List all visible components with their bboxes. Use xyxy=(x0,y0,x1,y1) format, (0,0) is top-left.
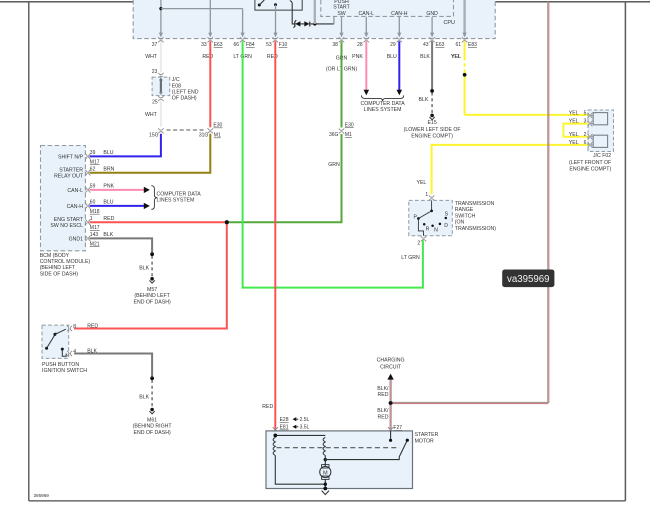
junction connector J/C F02 xyxy=(587,110,613,152)
pin 38 connector at module bottom xyxy=(332,37,344,48)
svg-text:59: 59 xyxy=(90,184,96,190)
svg-text:RED: RED xyxy=(378,392,389,398)
svg-text:M1: M1 xyxy=(214,133,221,139)
node overlay: YEL splice xyxy=(463,73,467,77)
svg-text:BLK: BLK xyxy=(418,97,428,103)
starter motor box xyxy=(266,431,413,489)
svg-text:COMPUTER DATA: COMPUTER DATA xyxy=(360,101,405,107)
BCM pin 1 (ENG START SW NO ESCL) xyxy=(50,216,114,231)
svg-text:M17: M17 xyxy=(90,225,100,231)
svg-text:TRANSMISSION): TRANSMISSION) xyxy=(455,226,496,232)
pin 33 connector at module bottom xyxy=(201,37,223,48)
svg-text:START: START xyxy=(333,5,350,11)
wire BLK: pin 43 down xyxy=(431,41,433,91)
pin 53 connector at module bottom xyxy=(266,37,287,48)
svg-text:8: 8 xyxy=(73,324,76,330)
tooltip va395969 xyxy=(502,270,554,288)
wire: starter top rail xyxy=(275,434,325,436)
pin 8 connector xyxy=(67,324,98,332)
node: coil junction xyxy=(324,458,327,461)
labels E28/E81 engine variants xyxy=(280,417,310,431)
svg-text:WHT: WHT xyxy=(145,54,158,60)
svg-text:66: 66 xyxy=(233,42,239,48)
node: charging junction xyxy=(389,401,393,405)
wire: thick gray vertical from top to diode junction xyxy=(314,0,316,24)
svg-text:ENGINE COMPT): ENGINE COMPT) xyxy=(411,133,453,139)
svg-text:RED: RED xyxy=(202,54,213,60)
node: splice on GND1 BLK xyxy=(150,252,154,256)
svg-text:CAN-H: CAN-H xyxy=(67,204,84,210)
svg-text:TRANSMISSION: TRANSMISSION xyxy=(455,201,495,207)
node: splice on BLK xyxy=(430,89,434,93)
svg-text:M61: M61 xyxy=(147,418,157,424)
svg-text:GND: GND xyxy=(426,11,438,17)
svg-text:CHARGING: CHARGING xyxy=(377,358,405,364)
label GRN (OR LT GRN) xyxy=(326,55,357,72)
pin 43 connector at module bottom xyxy=(423,37,445,48)
wire YEL: pin 61 down (with dashed span) xyxy=(451,41,465,115)
wire BLK dashed to ground xyxy=(418,93,432,114)
svg-text:D: D xyxy=(444,223,448,229)
svg-text:BLK/: BLK/ xyxy=(377,386,389,392)
pin 25 connector xyxy=(152,96,163,105)
svg-text:36G: 36G xyxy=(329,132,339,138)
node: ENG START junction xyxy=(225,220,229,224)
svg-text:E83: E83 xyxy=(468,42,477,48)
svg-text:F10: F10 xyxy=(279,42,288,48)
svg-text:STARTER: STARTER xyxy=(59,168,83,174)
svg-text:MOTOR: MOTOR xyxy=(415,438,434,444)
svg-text:23: 23 xyxy=(152,69,158,75)
node overlay: ENG START junction xyxy=(225,220,229,224)
page frame bottom border xyxy=(29,500,626,502)
svg-text:RANGE: RANGE xyxy=(455,207,474,213)
svg-text:25: 25 xyxy=(152,99,158,105)
svg-text:28: 28 xyxy=(357,42,363,48)
wire YEL: J/C F02 pin 3 loop to pin 2 xyxy=(563,124,589,137)
wire: CAN-H pin drop xyxy=(397,17,401,37)
svg-text:39: 39 xyxy=(90,150,96,156)
wire BLK dashed to M57 ground xyxy=(139,256,152,276)
svg-text:YEL: YEL xyxy=(569,111,579,117)
svg-text:60: 60 xyxy=(90,200,96,206)
svg-text:E30: E30 xyxy=(213,123,222,129)
svg-text:2: 2 xyxy=(584,132,587,138)
svg-text:END OF DASH): END OF DASH) xyxy=(134,299,171,305)
wire: up into CPU box xyxy=(333,17,335,24)
svg-text:E81: E81 xyxy=(280,425,289,431)
svg-text:BLK/: BLK/ xyxy=(377,408,389,414)
node: junction on pin 37 wire xyxy=(159,7,162,10)
svg-text:SW NO ESCL: SW NO ESCL xyxy=(50,223,83,229)
svg-text:J/C F02: J/C F02 xyxy=(593,153,611,159)
svg-text:M: M xyxy=(323,470,328,476)
wire PNK: pin 28 down to arrow xyxy=(364,41,370,95)
svg-text:N: N xyxy=(434,227,438,233)
svg-text:CIRCUIT: CIRCUIT xyxy=(380,365,402,371)
connector 31G xyxy=(199,123,223,139)
svg-text:YEL: YEL xyxy=(569,132,579,138)
wire YEL: J/C F02 pin 6 left and down to trans switch pin 1 xyxy=(416,145,589,194)
svg-text:PNK: PNK xyxy=(352,54,363,60)
node overlay: BLK splice E15 xyxy=(430,89,434,93)
connector row dashed line E30/M1 xyxy=(167,129,207,131)
junction connector J/C E08 xyxy=(152,77,170,96)
zener diode D1 (pointing left) xyxy=(294,20,305,27)
connector at starter (E28/E81) xyxy=(273,427,278,429)
pin 23 connector xyxy=(152,69,164,78)
ground M61 xyxy=(133,408,173,436)
svg-text:PNK: PNK xyxy=(103,184,114,190)
svg-text:33: 33 xyxy=(201,42,207,48)
ground E15 xyxy=(404,114,461,140)
svg-text:WHT: WHT xyxy=(145,112,158,118)
wire BLU: 15G down then left to BCM pin 39 xyxy=(90,134,161,157)
svg-text:395969: 395969 xyxy=(34,493,50,498)
svg-text:(ON: (ON xyxy=(455,220,465,226)
connector 36G E30/M1 xyxy=(329,123,354,139)
svg-text:BLK: BLK xyxy=(420,54,430,60)
svg-text:va395969: va395969 xyxy=(507,274,550,285)
pin 2 connector of range switch xyxy=(417,236,426,246)
svg-text:61: 61 xyxy=(455,42,461,48)
svg-text:RED: RED xyxy=(103,216,114,222)
wire: relay contact down to pin 53 xyxy=(273,5,277,37)
node: diode junction xyxy=(313,22,316,25)
svg-text:CAN-L: CAN-L xyxy=(67,188,83,194)
svg-text:143: 143 xyxy=(90,232,99,238)
wire BLK/RED: left to starter junction xyxy=(391,401,549,403)
svg-text:(LEFT FRONT OF: (LEFT FRONT OF xyxy=(569,160,611,166)
svg-text:ENGINE COMPT): ENGINE COMPT) xyxy=(569,166,611,172)
ground M57 xyxy=(134,277,171,305)
svg-text:STARTER: STARTER xyxy=(415,432,439,438)
svg-text:SWITCH: SWITCH xyxy=(455,213,476,219)
BCM pin 39 (SHIFT N/P) xyxy=(58,150,114,165)
dashed mechanical link xyxy=(277,447,400,449)
node: red entry dot xyxy=(274,434,278,438)
svg-text:31G: 31G xyxy=(199,133,209,139)
connector F27 xyxy=(388,425,402,432)
wire BLK/RED: long vertical from top xyxy=(547,2,549,403)
wire BLK/RED: up to charging circuit arrow xyxy=(387,374,393,403)
svg-text:29: 29 xyxy=(390,42,396,48)
svg-text:6: 6 xyxy=(584,140,587,146)
BCM pin 143 (GND1) xyxy=(69,232,114,247)
svg-text:(BEHIND LEFT: (BEHIND LEFT xyxy=(134,293,170,299)
node overlay: charging junction xyxy=(389,401,393,405)
pin 1 connector of range switch xyxy=(425,192,434,200)
BCM (body control module) box xyxy=(41,146,86,251)
svg-text:BLU: BLU xyxy=(103,150,113,156)
label TRANSMISSION RANGE SWITCH (ON TRANSMISSION) xyxy=(455,201,496,232)
svg-text:YEL: YEL xyxy=(451,54,461,60)
svg-text:3.5L: 3.5L xyxy=(300,425,310,431)
svg-text:RED: RED xyxy=(87,324,98,330)
svg-text:OF DASH): OF DASH) xyxy=(172,96,197,102)
svg-text:YEL: YEL xyxy=(416,180,426,186)
control module (outer blue box, cut off at top) xyxy=(133,0,495,39)
wire BLK dashed to M61 ground xyxy=(139,380,152,407)
svg-text:E28: E28 xyxy=(280,417,289,423)
svg-text:LINES SYSTEM: LINES SYSTEM xyxy=(364,107,402,113)
svg-text:BCM (BODY: BCM (BODY xyxy=(40,253,70,259)
svg-text:2.5L: 2.5L xyxy=(300,417,310,423)
node overlay: M61 splice xyxy=(150,377,154,381)
svg-text:SHIFT N/P: SHIFT N/P xyxy=(58,154,84,160)
labels YEL pin numbers at J/C F02 xyxy=(569,111,587,146)
pin 28 connector at module bottom xyxy=(357,37,369,48)
wire RED: pin 53 down to starter motor xyxy=(262,41,275,435)
svg-text:GRN: GRN xyxy=(328,162,340,168)
page frame left border xyxy=(28,2,30,501)
node: bottom rail junction xyxy=(324,483,327,486)
svg-text:F84: F84 xyxy=(246,42,255,48)
wire: to contact riser xyxy=(324,455,326,459)
svg-text:COMPUTER DATA: COMPUTER DATA xyxy=(157,191,202,197)
wire GRN: 36G down then left to junction xyxy=(227,134,342,222)
svg-text:E15: E15 xyxy=(427,120,436,126)
pin 61 connector at module bottom xyxy=(455,37,477,48)
wire LT GRN: pin 66 down, right, up to trans switch pin 2 xyxy=(243,41,423,287)
svg-text:S: S xyxy=(445,211,449,217)
svg-text:R: R xyxy=(426,227,430,233)
svg-text:RED: RED xyxy=(262,404,273,410)
svg-text:43: 43 xyxy=(423,42,429,48)
BCM pin 60 (CAN-H) xyxy=(67,200,114,215)
wire BLK: pin 4 right then down xyxy=(74,354,152,378)
wire: pin 37 internal vertical xyxy=(159,0,163,37)
svg-text:5: 5 xyxy=(584,111,587,117)
svg-text:3: 3 xyxy=(584,119,587,125)
svg-text:(LEFT END: (LEFT END xyxy=(172,89,199,95)
svg-text:BRN: BRN xyxy=(103,167,114,173)
node overlay: starter red entry xyxy=(274,434,278,438)
svg-text:CAN-L: CAN-L xyxy=(359,11,375,17)
svg-text:END OF DASH): END OF DASH) xyxy=(134,430,171,436)
svg-text:1: 1 xyxy=(425,192,428,198)
wire: GND pin drop xyxy=(430,17,434,37)
svg-text:(BEHIND RIGHT: (BEHIND RIGHT xyxy=(133,424,173,430)
svg-text:SIDE OF DASH): SIDE OF DASH) xyxy=(40,271,79,277)
label COMPUTER DATA LINES SYSTEM (left) xyxy=(157,191,202,203)
wire BLK/RED: junction down to F27 xyxy=(389,403,391,431)
svg-text:P: P xyxy=(414,214,418,220)
svg-text:BLK: BLK xyxy=(139,395,149,401)
svg-text:RED: RED xyxy=(267,54,278,60)
relay/switch housing (cut off at top) xyxy=(255,0,302,10)
brace computer data lines (top) xyxy=(362,95,404,101)
label PUSH BUTTON IGNITION SWITCH xyxy=(42,362,87,374)
wire: hook down to diode pair xyxy=(290,1,295,24)
wire WHT: pin 25 down to 15G xyxy=(145,100,161,126)
label PUSH START SW xyxy=(333,0,350,17)
svg-text:PUSH BUTTON: PUSH BUTTON xyxy=(42,362,79,368)
pin 4 connector xyxy=(67,349,98,357)
svg-text:62: 62 xyxy=(90,167,96,173)
svg-text:15G: 15G xyxy=(149,133,159,139)
label CHARGING CIRCUIT xyxy=(377,358,405,371)
svg-text:M1: M1 xyxy=(345,132,352,138)
brace computer data lines (left) xyxy=(151,186,157,210)
svg-text:E63: E63 xyxy=(436,42,445,48)
wire BLU: pin 29 down to arrow xyxy=(397,41,403,95)
node: ground exit dot xyxy=(323,487,327,491)
page frame top border xyxy=(0,1,650,3)
switch contact and arm inside relay xyxy=(258,0,277,7)
wire: pin 33 internal vertical xyxy=(208,0,212,37)
wire: pin 66 internal vertical xyxy=(241,9,245,38)
label J/C F02 (LEFT FRONT OF ENGINE COMPT) xyxy=(569,153,611,172)
svg-text:BLU: BLU xyxy=(387,54,397,60)
wire: CAN-L pin drop xyxy=(364,17,368,37)
wire: F27 drop to contact xyxy=(389,431,392,442)
wire BLK: GND1 right then down xyxy=(90,238,153,253)
coil L2 (hold-in) xyxy=(323,437,325,455)
svg-text:BLU: BLU xyxy=(103,200,113,206)
connector 15G xyxy=(149,128,164,138)
label BCM (BODY CONTROL MODULE) (BEHIND LEFT SIDE OF DASH) xyxy=(40,253,91,278)
diode D2 (pointing right) xyxy=(304,21,334,26)
svg-text:CONTROL MODULE): CONTROL MODULE) xyxy=(40,259,91,265)
wire: pin 61 thick gray vertical xyxy=(463,0,467,37)
wire BLU: CAN-H to computer data arrow xyxy=(90,203,150,209)
ground below starter motor xyxy=(322,491,329,495)
wire RED: ENG START to junction xyxy=(90,221,227,223)
svg-text:53: 53 xyxy=(266,42,272,48)
svg-text:M17: M17 xyxy=(90,159,100,165)
node: splice on YEL xyxy=(463,73,467,77)
svg-text:LINES SYSTEM: LINES SYSTEM xyxy=(157,198,195,204)
wire PNK: CAN-L to computer data arrow xyxy=(90,187,150,193)
svg-text:2: 2 xyxy=(417,241,420,247)
wire WHT: pin 37 down to J/C E08 pin 23 xyxy=(160,41,162,72)
svg-text:RELAY OUT: RELAY OUT xyxy=(54,174,84,180)
transmission range switch (on transmission) xyxy=(409,200,453,235)
label STARTER MOTOR xyxy=(415,432,439,444)
svg-text:E63: E63 xyxy=(214,42,223,48)
label J/C E08 (LEFT END OF DASH) xyxy=(172,77,199,101)
svg-text:(LOWER LEFT SIDE OF: (LOWER LEFT SIDE OF xyxy=(404,127,461,133)
pin 29 connector at module bottom xyxy=(390,37,402,48)
svg-text:GND1: GND1 xyxy=(69,236,84,242)
motor M xyxy=(320,460,331,489)
pin 66 connector at module bottom xyxy=(233,37,254,48)
svg-text:SW: SW xyxy=(337,11,345,17)
svg-text:BLK: BLK xyxy=(103,232,113,238)
push button ignition switch box xyxy=(42,325,69,358)
CPU inner dashed box xyxy=(321,0,455,26)
wire YEL: right to J/C F02 pin 5 xyxy=(465,114,590,116)
svg-text:M21: M21 xyxy=(90,241,100,247)
node: splice on push button BLK xyxy=(150,377,154,381)
wire: left branch down and bottom rail xyxy=(275,455,325,484)
svg-text:E08: E08 xyxy=(172,83,181,89)
label BLK/RED (above junction) xyxy=(377,386,389,398)
coil L1 (pull-in) xyxy=(273,437,275,455)
node overlay: M57 splice xyxy=(150,252,154,256)
svg-text:CPU: CPU xyxy=(444,20,455,26)
svg-text:RED: RED xyxy=(378,414,389,420)
wire: SW pin drop xyxy=(339,17,343,37)
svg-text:YEL: YEL xyxy=(569,140,579,146)
label COMPUTER DATA LINES SYSTEM (top) xyxy=(360,101,405,113)
label BLK/RED (below junction) xyxy=(377,408,389,420)
wire GRN: pin 38 down to 36G xyxy=(341,41,343,127)
BCM pin 59 (CAN-L) xyxy=(67,184,114,194)
svg-text:37: 37 xyxy=(152,42,158,48)
svg-text:YEL: YEL xyxy=(569,119,579,125)
svg-text:IGNITION SWITCH: IGNITION SWITCH xyxy=(42,368,87,374)
svg-text:CAN-H: CAN-H xyxy=(391,11,408,17)
BCM pin 62 (STARTER RELAY OUT) xyxy=(54,167,115,180)
wire RED: junction down then left to push button pin 8 xyxy=(74,222,227,328)
svg-text:ENG START: ENG START xyxy=(54,217,84,223)
svg-text:(BEHIND LEFT: (BEHIND LEFT xyxy=(40,265,76,271)
svg-text:J/C: J/C xyxy=(172,77,180,83)
pin 37 connector at module bottom xyxy=(152,37,164,48)
svg-text:38: 38 xyxy=(332,42,338,48)
wire BRN: 31G down then left to BCM pin 62 xyxy=(90,134,211,173)
page frame right border xyxy=(624,2,626,501)
svg-text:M57: M57 xyxy=(147,287,157,293)
svg-text:1: 1 xyxy=(90,216,93,222)
svg-text:BLK: BLK xyxy=(139,266,149,272)
svg-text:LT GRN: LT GRN xyxy=(401,255,420,261)
switch contact arm xyxy=(399,439,409,457)
wire: internal horizontal 37 to 66 xyxy=(161,8,243,10)
wire RED: pin 33 down to 31G xyxy=(209,41,211,127)
svg-text:E30: E30 xyxy=(345,123,354,129)
svg-text:M18: M18 xyxy=(90,209,100,215)
